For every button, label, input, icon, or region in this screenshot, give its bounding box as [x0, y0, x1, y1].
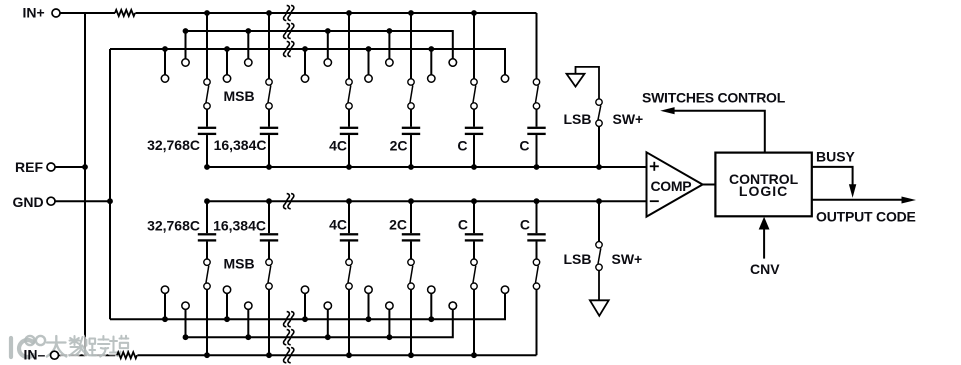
- capacitor 32,768C top: [198, 109, 216, 167]
- wire REF stub: [55, 166, 85, 168]
- wire IN+ to resistor R1: [60, 12, 115, 14]
- svg-text:LSB: LSB: [564, 111, 592, 127]
- svg-text:SWITCHES CONTROL: SWITCHES CONTROL: [642, 90, 786, 106]
- wire comparator output: [703, 184, 716, 186]
- switch throw stubs cell 5 top: [428, 49, 457, 82]
- svg-text:16,384C: 16,384C: [214, 137, 267, 153]
- break squiggles bottom lines: [284, 194, 294, 363]
- capacitor 16,384C top: [260, 109, 278, 167]
- svg-text:CNV: CNV: [750, 261, 780, 277]
- switch S1 top: [204, 13, 210, 109]
- terminal REF: [47, 163, 55, 171]
- wire bus IN- (bottom bus1) with corner up to LSB cell: [137, 354, 536, 356]
- switch throw stubs cell 6 top: [449, 59, 509, 82]
- svg-text:4C: 4C: [329, 217, 347, 233]
- switch S5 bottom: [471, 259, 477, 355]
- switch throw stubs cell 3 bottom: [301, 286, 331, 337]
- svg-text:2C: 2C: [389, 217, 407, 233]
- capacitor 4C bottom: [340, 201, 358, 259]
- svg-text:MSB: MSB: [224, 256, 255, 272]
- op-amp comparator U1: [647, 152, 703, 216]
- junction dots on bus3 top: [162, 46, 434, 52]
- switch S6 top: [533, 13, 539, 109]
- svg-text:SW+: SW+: [612, 251, 643, 267]
- control logic block: [715, 153, 811, 217]
- wire bus IN+ (top bus1) with corner down to LSB cell: [135, 12, 536, 14]
- svg-text:32,768C: 32,768C: [147, 218, 200, 234]
- terminal IN-: [51, 351, 59, 359]
- junction REF rail: [82, 164, 88, 170]
- capacitor C top: [527, 109, 545, 167]
- wire CNV with up arrow: [759, 217, 770, 259]
- resistor R2 on IN- line: [117, 352, 137, 358]
- wire bus3 top (GND bus): [110, 49, 505, 75]
- terminal GND: [47, 197, 55, 205]
- ground symbol bottom: [590, 300, 609, 316]
- capacitor 2C top: [402, 109, 420, 167]
- wire bus2 top (REF bus): [186, 31, 453, 59]
- switch throw stubs cell 4 top: [365, 31, 393, 82]
- label CONTROL LOGIC: [729, 171, 799, 199]
- capacitor 16,384C bottom: [260, 201, 278, 259]
- svg-text:OUTPUT CODE: OUTPUT CODE: [816, 209, 916, 225]
- svg-text:COMP: COMP: [651, 178, 692, 194]
- switch throw stubs cell 3 top: [301, 31, 331, 82]
- svg-text:GND: GND: [13, 194, 44, 210]
- switch S4 top: [408, 13, 414, 109]
- junction dots on bus3 bottom: [162, 316, 434, 322]
- junction dots on IN+ bus: [204, 10, 477, 16]
- ground symbol top: [567, 66, 585, 87]
- switch S3 top: [346, 13, 352, 109]
- svg-text:32,768C: 32,768C: [147, 137, 200, 153]
- junction dots on bus2 top: [183, 28, 393, 34]
- switch S2 top: [266, 13, 272, 109]
- svg-text:16,384C: 16,384C: [213, 218, 266, 234]
- wire OUTPUT CODE with arrow: [812, 197, 916, 204]
- svg-text:C: C: [457, 138, 467, 154]
- switch S3 bottom: [346, 259, 352, 355]
- svg-text:REF: REF: [15, 159, 43, 175]
- resistor R1 on IN+ line: [115, 10, 135, 16]
- switch S2 bottom: [266, 259, 272, 355]
- junction dots common top: [204, 164, 602, 170]
- wire IN- to resistor R2: [59, 354, 118, 356]
- wire ground to switch SW+ top: [576, 67, 600, 99]
- junction dots on IN- bus: [204, 352, 477, 358]
- svg-text:C: C: [520, 217, 530, 233]
- switch SW+ top (LSB): [596, 99, 602, 167]
- svg-text:2C: 2C: [390, 138, 408, 154]
- svg-text:IN+: IN+: [23, 5, 45, 21]
- break squiggles top buses: [284, 5, 294, 56]
- svg-text:BUSY: BUSY: [816, 148, 856, 164]
- junction GND rail: [107, 198, 113, 204]
- wire BUSY with down arrow: [812, 167, 857, 198]
- switch throw stubs cell 2 bottom: [223, 286, 252, 337]
- capacitor C bottom: [527, 201, 545, 259]
- terminal IN+: [52, 9, 60, 17]
- switch throw stubs cell 6 bottom: [449, 286, 509, 309]
- capacitor 2C bottom: [402, 201, 420, 259]
- capacitor C bottom: [465, 201, 483, 259]
- svg-text:C: C: [519, 138, 529, 154]
- svg-text:4C: 4C: [329, 138, 347, 154]
- junction dots on bus2 bottom: [183, 334, 393, 340]
- capacitor C top: [465, 109, 483, 167]
- svg-text:C: C: [458, 217, 468, 233]
- switch throw stubs cell 1 bottom: [161, 286, 189, 337]
- switch S6 bottom: [533, 259, 539, 355]
- wire common bottom line to comparator -: [207, 200, 647, 202]
- svg-text:SW+: SW+: [613, 111, 644, 127]
- svg-text:MSB: MSB: [224, 88, 255, 104]
- switch S4 bottom: [408, 259, 414, 355]
- switch S1 bottom: [204, 259, 210, 355]
- wire SWITCHES CONTROL with arrow: [660, 107, 765, 153]
- switch throw stubs cell 1 top: [161, 31, 189, 82]
- switch throw stubs cell 5 bottom: [428, 286, 457, 319]
- svg-text:LSB: LSB: [564, 251, 592, 267]
- svg-text:IN–: IN–: [24, 347, 46, 363]
- wire bus2 bottom (REF bus): [186, 309, 453, 337]
- capacitor 32,768C bottom: [198, 201, 216, 259]
- wire GND stub: [55, 200, 110, 202]
- svg-text:LOGIC: LOGIC: [739, 183, 788, 199]
- switch S5 top: [471, 13, 477, 109]
- wire vertical REF rail V1: [84, 13, 86, 355]
- switch throw stubs cell 2 top: [223, 31, 252, 82]
- switch throw stubs cell 4 bottom: [365, 286, 393, 337]
- capacitor 4C top: [340, 109, 358, 167]
- junction dots common bottom: [204, 198, 602, 204]
- wire vertical GND rail V2: [109, 49, 111, 319]
- watermark logo and chinese text: [11, 336, 130, 357]
- wire common top line to comparator +: [207, 166, 647, 168]
- wire bus3 bottom (GND bus): [110, 293, 505, 319]
- switch SW+ bottom (LSB): [596, 201, 602, 300]
